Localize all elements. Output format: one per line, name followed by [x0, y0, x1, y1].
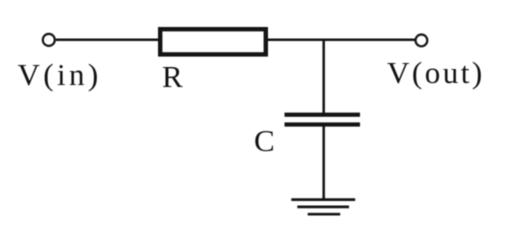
wire resistor to output terminal — [266, 38, 415, 41]
svg-text:C: C — [254, 123, 275, 158]
wire capacitor to ground — [322, 127, 325, 200]
svg-text:V(in): V(in) — [18, 57, 102, 92]
capacitor C bottom plate — [285, 122, 361, 126]
svg-text:V(out): V(out) — [387, 55, 485, 90]
terminal (input) — [43, 34, 55, 46]
wire junction down to capacitor — [322, 40, 325, 114]
ground — [291, 200, 355, 215]
capacitor C top plate — [285, 113, 361, 117]
svg-text:R: R — [162, 59, 183, 94]
terminal (output) — [416, 35, 428, 47]
resistor R — [160, 29, 266, 54]
wire input terminal to resistor — [56, 38, 160, 41]
